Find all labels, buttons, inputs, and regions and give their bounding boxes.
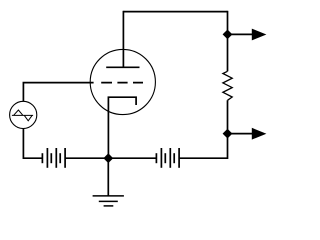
- output arrow lower: [252, 128, 267, 140]
- wire lower output stub: [228, 133, 253, 135]
- wire grid lead to AC source: [23, 83, 93, 102]
- vacuum tube V1 grid (dashed): [101, 82, 143, 84]
- AC source VS envelope: [10, 101, 37, 128]
- resistor R (plate load): [223, 71, 232, 100]
- wire right rail lower + bottom corner to battery: [179, 100, 227, 158]
- wire upper output stub: [228, 33, 253, 35]
- wire AC source to battery B1: [23, 129, 42, 159]
- AC source waveform symbol: [12, 110, 33, 121]
- wire right rail upper: [227, 11, 229, 72]
- vacuum tube V1 cathode: [108, 97, 136, 158]
- node junction cathode/ground: [103, 153, 113, 163]
- wire plate lead: [122, 11, 124, 68]
- ground: [93, 158, 124, 206]
- node junction upper output: [223, 30, 233, 40]
- vacuum tube V1 plate: [106, 66, 139, 68]
- battery B2 (plate supply): [108, 148, 179, 168]
- vacuum tube V1 envelope: [90, 49, 155, 114]
- output arrow upper: [252, 29, 267, 41]
- node junction lower output: [223, 129, 233, 139]
- wire top (plate to right rail): [123, 11, 227, 13]
- battery B1 (grid bias): [42, 148, 108, 168]
